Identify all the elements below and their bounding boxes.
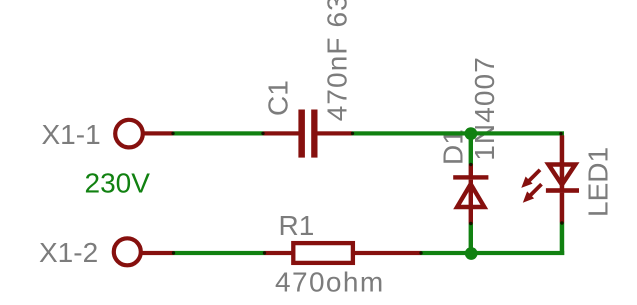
svg-text:X1-1: X1-1 (42, 119, 101, 150)
wire top-right (352, 131, 564, 135)
junction bottom (465, 247, 478, 260)
pin X1-2 (141, 251, 174, 255)
svg-text:C1: C1 (263, 80, 294, 116)
resistor R1 (293, 243, 353, 263)
pin connection dots (171, 132, 563, 255)
wire bottom-right (421, 251, 564, 255)
svg-text:R1: R1 (279, 210, 315, 241)
pin X1-1 (143, 131, 173, 135)
connector X1-1 (115, 120, 143, 148)
wire D1 bottom (469, 224, 473, 254)
svg-text:LED1: LED1 (583, 147, 614, 217)
svg-text:470nF 630V: 470nF 630V (322, 0, 353, 121)
svg-text:230V: 230V (85, 168, 151, 199)
pin C1 right (318, 131, 353, 135)
pin R1 right (355, 251, 421, 255)
pin R1 left (265, 251, 292, 255)
capacitor C1 (298, 110, 317, 158)
LED1 arrow 1 (521, 170, 540, 188)
wire bottom-left (174, 251, 265, 255)
wire D1 top (469, 134, 473, 164)
pin LED1 bottom (560, 193, 565, 223)
LED1 arrow 2 (523, 184, 542, 203)
svg-text:470ohm: 470ohm (275, 267, 385, 298)
pin C1 left (263, 131, 299, 135)
svg-text:X1-2: X1-2 (39, 237, 98, 268)
svg-text:1N4007: 1N4007 (469, 56, 500, 161)
wire LED1 bottom (560, 223, 565, 256)
connector X1-2 (114, 238, 141, 265)
junction top (465, 127, 478, 140)
LED LED1 (544, 162, 579, 193)
pin D1 bottom (469, 209, 473, 224)
wire top-left (173, 131, 263, 135)
pin LED1 top (560, 135, 565, 163)
diode D1 (453, 175, 488, 209)
pin D1 top (469, 164, 473, 176)
